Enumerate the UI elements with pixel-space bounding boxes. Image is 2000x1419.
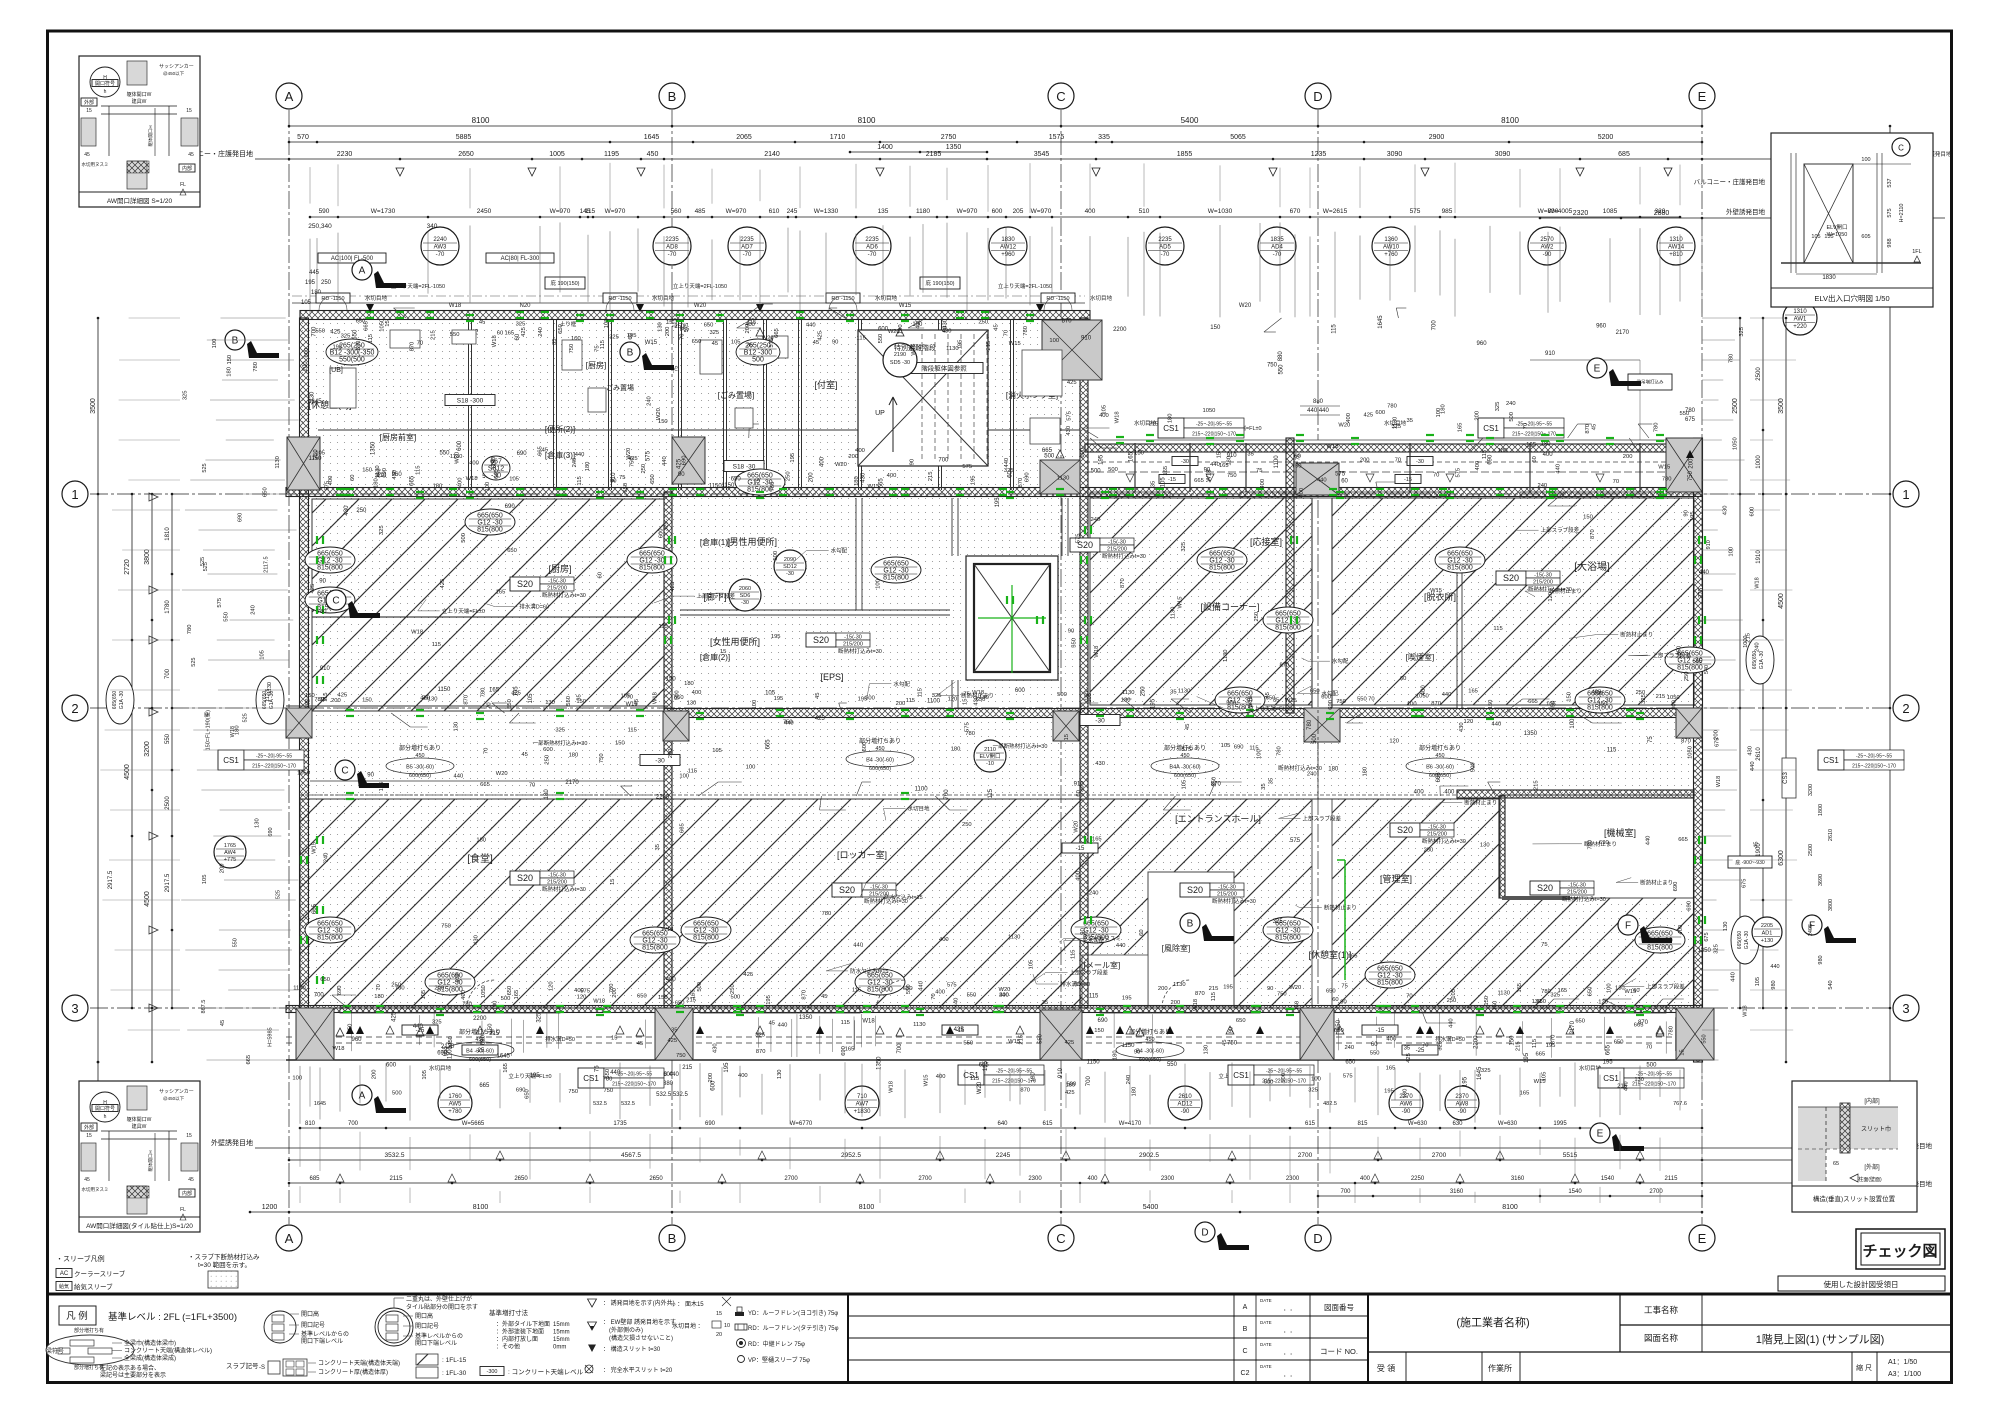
svg-text:400: 400 bbox=[469, 460, 479, 466]
svg-text:RD：中継ドレン 75φ: RD：中継ドレン 75φ bbox=[748, 1340, 805, 1348]
svg-text:C2: C2 bbox=[1241, 1370, 1250, 1377]
svg-text:250: 250 bbox=[641, 464, 647, 474]
svg-text:665: 665 bbox=[410, 475, 416, 486]
svg-text:90: 90 bbox=[832, 340, 838, 346]
svg-text:165: 165 bbox=[1163, 466, 1169, 476]
svg-text:2235: 2235 bbox=[865, 237, 879, 243]
svg-text:325: 325 bbox=[1714, 944, 1720, 954]
svg-text:400: 400 bbox=[936, 1074, 946, 1080]
svg-text:985: 985 bbox=[1442, 208, 1453, 215]
svg-text:600(650): 600(650) bbox=[409, 773, 431, 779]
svg-text:: コンクリート天端レベル: : コンクリート天端レベル bbox=[508, 1367, 584, 1376]
svg-text:815(800: 815(800 bbox=[1677, 665, 1703, 672]
svg-text:作業所: 作業所 bbox=[1488, 1363, 1512, 1373]
svg-text:105: 105 bbox=[202, 875, 208, 885]
svg-text:-15(-30: -15(-30 bbox=[1428, 825, 1446, 831]
svg-text:665: 665 bbox=[979, 1063, 990, 1069]
svg-text:650: 650 bbox=[1345, 1059, 1356, 1065]
svg-text:180: 180 bbox=[235, 725, 241, 735]
svg-text:690: 690 bbox=[705, 1121, 716, 1127]
svg-text:910: 910 bbox=[1545, 351, 1556, 357]
svg-text:105: 105 bbox=[1221, 743, 1231, 749]
svg-text:165: 165 bbox=[1348, 953, 1358, 959]
svg-text:90: 90 bbox=[1068, 629, 1074, 635]
svg-text:130: 130 bbox=[777, 1069, 783, 1079]
svg-text:425: 425 bbox=[1406, 1053, 1412, 1063]
svg-text:W15: W15 bbox=[923, 1074, 929, 1086]
svg-text:1100: 1100 bbox=[1274, 455, 1280, 469]
svg-text:W20: W20 bbox=[1239, 303, 1252, 309]
svg-text:防水欠込みt=15: 防水欠込みt=15 bbox=[850, 967, 888, 975]
svg-text:AD1: AD1 bbox=[1762, 931, 1773, 937]
svg-text:400: 400 bbox=[461, 990, 467, 1000]
svg-text:665: 665 bbox=[765, 739, 771, 750]
svg-text:B12 -300: B12 -300 bbox=[744, 350, 773, 357]
svg-text:[機械室]: [機械室] bbox=[1604, 827, 1636, 838]
svg-text:60: 60 bbox=[497, 330, 503, 336]
svg-text:90: 90 bbox=[910, 459, 916, 465]
svg-text:外部: 外部 bbox=[84, 99, 94, 106]
svg-text:W15: W15 bbox=[911, 344, 917, 356]
svg-text:h: h bbox=[104, 89, 107, 95]
svg-text:AW5: AW5 bbox=[449, 1102, 462, 1108]
svg-text:全梁成(構造体梁成): 全梁成(構造体梁成) bbox=[124, 1354, 176, 1362]
svg-text:躯体開口H: 躯体開口H bbox=[147, 125, 154, 146]
svg-text:780: 780 bbox=[1307, 719, 1313, 730]
svg-text:120: 120 bbox=[1598, 999, 1608, 1005]
svg-text:200: 200 bbox=[434, 985, 444, 991]
svg-text:685: 685 bbox=[309, 1176, 320, 1182]
svg-text:1130: 1130 bbox=[275, 456, 281, 468]
svg-text:700: 700 bbox=[897, 1043, 903, 1054]
svg-text:600: 600 bbox=[1375, 410, 1385, 416]
svg-text:-70: -70 bbox=[668, 252, 677, 258]
svg-text:615: 615 bbox=[1305, 1121, 1316, 1127]
svg-text:D: D bbox=[1313, 89, 1322, 104]
svg-text:750: 750 bbox=[568, 1089, 578, 1095]
svg-text:430: 430 bbox=[1747, 746, 1753, 756]
svg-text:115: 115 bbox=[323, 693, 329, 702]
svg-text:E: E bbox=[1597, 1129, 1604, 1140]
svg-text:105: 105 bbox=[1811, 234, 1820, 240]
svg-text:70: 70 bbox=[1433, 473, 1439, 479]
svg-text:880: 880 bbox=[663, 1081, 674, 1087]
svg-text:685: 685 bbox=[1618, 151, 1630, 158]
svg-text:60: 60 bbox=[1332, 997, 1338, 1003]
svg-text:440: 440 bbox=[853, 943, 863, 949]
svg-text:3500: 3500 bbox=[90, 398, 97, 414]
svg-text:665: 665 bbox=[364, 321, 370, 331]
svg-text:W18: W18 bbox=[661, 927, 673, 933]
svg-text:425: 425 bbox=[1592, 689, 1602, 695]
svg-text:60: 60 bbox=[598, 572, 604, 578]
svg-text:1765: 1765 bbox=[224, 843, 236, 849]
svg-text:180: 180 bbox=[1498, 448, 1508, 454]
svg-text:8100: 8100 bbox=[858, 116, 876, 125]
svg-text:A: A bbox=[359, 1091, 366, 1102]
svg-text:690: 690 bbox=[1234, 744, 1244, 750]
svg-text:250,340: 250,340 bbox=[308, 223, 332, 230]
svg-text:-25: -25 bbox=[1416, 1048, 1425, 1054]
svg-text:C: C bbox=[1242, 1348, 1247, 1355]
svg-text:45: 45 bbox=[188, 152, 194, 158]
svg-text:1130: 1130 bbox=[1122, 690, 1134, 696]
svg-text:W=1050: W=1050 bbox=[1827, 232, 1848, 238]
svg-text:75: 75 bbox=[674, 366, 680, 372]
svg-text:W18: W18 bbox=[1716, 776, 1722, 787]
svg-text:815(800: 815(800 bbox=[1275, 935, 1301, 942]
svg-text:650: 650 bbox=[507, 548, 517, 554]
svg-text:240: 240 bbox=[1344, 1045, 1354, 1051]
svg-text:[厨房]: [厨房] bbox=[586, 360, 606, 370]
svg-text:195: 195 bbox=[1223, 985, 1233, 991]
svg-text:250: 250 bbox=[1141, 686, 1147, 697]
svg-text:165: 165 bbox=[1468, 689, 1478, 695]
svg-text:45: 45 bbox=[813, 340, 819, 346]
svg-text:10: 10 bbox=[724, 1323, 730, 1329]
svg-text:180: 180 bbox=[1441, 404, 1447, 414]
svg-text:部分増打ちあり: 部分増打ちあり bbox=[399, 744, 441, 752]
svg-text:650: 650 bbox=[1575, 1018, 1585, 1024]
svg-text:3090: 3090 bbox=[1495, 151, 1511, 158]
svg-text:2650: 2650 bbox=[458, 151, 474, 158]
svg-text:8100: 8100 bbox=[472, 116, 490, 125]
svg-text:780: 780 bbox=[1654, 423, 1660, 433]
svg-text:1350: 1350 bbox=[946, 144, 962, 151]
svg-text:650: 650 bbox=[1266, 695, 1276, 701]
svg-text:400: 400 bbox=[1346, 413, 1352, 423]
svg-text:150: 150 bbox=[1488, 700, 1494, 710]
svg-text:100: 100 bbox=[492, 1001, 498, 1011]
svg-text:75: 75 bbox=[594, 1065, 600, 1072]
svg-text:780: 780 bbox=[770, 482, 776, 492]
svg-text:115: 115 bbox=[906, 698, 915, 704]
svg-text:665(650: 665(650 bbox=[1447, 551, 1473, 558]
svg-text:90: 90 bbox=[1134, 1050, 1140, 1056]
svg-text:15: 15 bbox=[666, 320, 672, 326]
svg-text:250: 250 bbox=[356, 508, 367, 514]
svg-text:W=630: W=630 bbox=[1408, 1121, 1428, 1127]
svg-text:600: 600 bbox=[1080, 448, 1086, 458]
svg-text:S20: S20 bbox=[1503, 573, 1519, 583]
svg-text:45: 45 bbox=[769, 1020, 775, 1026]
svg-text:1350: 1350 bbox=[877, 1056, 883, 1070]
svg-text:400: 400 bbox=[1543, 452, 1554, 458]
svg-text:325: 325 bbox=[1495, 402, 1501, 412]
svg-text:500: 500 bbox=[1471, 762, 1477, 772]
svg-text:60: 60 bbox=[1139, 929, 1145, 935]
svg-text:750: 750 bbox=[603, 1088, 613, 1094]
svg-text:750: 750 bbox=[1688, 470, 1694, 481]
svg-text:430: 430 bbox=[916, 319, 922, 329]
svg-text:150: 150 bbox=[488, 1024, 494, 1034]
svg-text:665: 665 bbox=[1678, 837, 1688, 843]
svg-text:550: 550 bbox=[439, 451, 450, 457]
svg-text:600: 600 bbox=[457, 440, 463, 451]
svg-text:断熱材止まり: 断熱材止まり bbox=[961, 691, 994, 699]
svg-text:h: h bbox=[104, 1114, 107, 1120]
svg-text:・ ・: ・ ・ bbox=[1282, 1330, 1293, 1336]
svg-text:215: 215 bbox=[1209, 986, 1219, 992]
svg-text:130: 130 bbox=[545, 700, 555, 706]
svg-text:1100: 1100 bbox=[915, 786, 929, 792]
svg-text:15: 15 bbox=[1064, 734, 1070, 740]
svg-text:：その他: ：その他 bbox=[496, 1343, 520, 1351]
svg-text:B: B bbox=[668, 89, 677, 104]
svg-text:AW7: AW7 bbox=[856, 1102, 869, 1108]
svg-text:W18: W18 bbox=[1742, 1005, 1748, 1016]
svg-text:815(800: 815(800 bbox=[883, 575, 909, 582]
svg-text:75: 75 bbox=[1256, 468, 1262, 474]
svg-text:750: 750 bbox=[1227, 1040, 1238, 1046]
svg-text:45: 45 bbox=[220, 1020, 226, 1026]
svg-text:図面名称: 図面名称 bbox=[1644, 1333, 1679, 1343]
svg-text:-15(-30: -15(-30 bbox=[1534, 573, 1552, 579]
svg-text:1200: 1200 bbox=[262, 1204, 278, 1211]
svg-text:5200: 5200 bbox=[1598, 134, 1614, 141]
svg-text:立上り天端=2FL-1050: 立上り天端=2FL-1050 bbox=[391, 282, 445, 290]
svg-text:8100: 8100 bbox=[859, 1204, 875, 1211]
svg-text:195: 195 bbox=[1384, 1088, 1394, 1094]
svg-text:400: 400 bbox=[1414, 790, 1425, 796]
svg-text:建具W: 建具W bbox=[132, 1123, 147, 1130]
svg-text:675: 675 bbox=[1685, 417, 1696, 423]
svg-text:スラブ記号: スラブ記号 bbox=[226, 1361, 259, 1370]
svg-text:図面番号: 図面番号 bbox=[1324, 1302, 1354, 1312]
svg-text:-90: -90 bbox=[1402, 1109, 1411, 1115]
svg-text:1910: 1910 bbox=[1756, 550, 1762, 564]
svg-text:165: 165 bbox=[1520, 1090, 1530, 1096]
svg-text:195: 195 bbox=[530, 1073, 541, 1079]
svg-text:215/200: 215/200 bbox=[547, 880, 567, 886]
svg-text:[付室]: [付室] bbox=[814, 379, 837, 390]
svg-text:575: 575 bbox=[580, 989, 590, 995]
svg-text:15: 15 bbox=[385, 320, 391, 326]
svg-text:-30: -30 bbox=[786, 571, 794, 577]
svg-text:CS1: CS1 bbox=[223, 756, 239, 765]
svg-text:880: 880 bbox=[1278, 351, 1284, 362]
svg-text:AW3: AW3 bbox=[434, 245, 447, 251]
svg-text:400: 400 bbox=[692, 690, 702, 696]
svg-text:988: 988 bbox=[1887, 238, 1893, 247]
svg-text:780: 780 bbox=[822, 911, 832, 917]
svg-text:815(800: 815(800 bbox=[642, 945, 668, 952]
svg-text:240: 240 bbox=[491, 457, 497, 467]
svg-text:650: 650 bbox=[1614, 1040, 1624, 1046]
svg-text:G12 -30: G12 -30 bbox=[693, 928, 718, 935]
svg-text:425: 425 bbox=[670, 582, 676, 592]
svg-text:665(650: 665(650 bbox=[693, 921, 719, 928]
svg-text:500: 500 bbox=[1281, 1073, 1287, 1083]
svg-text:RD：ルーフドレン(タテ引き) 75φ: RD：ルーフドレン(タテ引き) 75φ bbox=[748, 1324, 839, 1332]
svg-text:130: 130 bbox=[1121, 698, 1131, 704]
svg-text:400: 400 bbox=[820, 456, 826, 467]
svg-text:開口符号: 開口符号 bbox=[95, 1105, 115, 1112]
svg-text:815(800: 815(800 bbox=[1275, 625, 1301, 632]
svg-text:D: D bbox=[1313, 1231, 1322, 1246]
svg-text:H=2110: H=2110 bbox=[1899, 203, 1905, 222]
svg-text:440: 440 bbox=[784, 721, 794, 727]
svg-text:960: 960 bbox=[1596, 324, 1607, 330]
svg-text:195: 195 bbox=[712, 748, 722, 754]
svg-text:75: 75 bbox=[1541, 942, 1547, 948]
svg-text:440: 440 bbox=[778, 1022, 788, 1028]
svg-text:115: 115 bbox=[1089, 994, 1099, 1000]
svg-text:690: 690 bbox=[1687, 901, 1693, 911]
svg-text:60: 60 bbox=[1076, 790, 1082, 796]
svg-text:B4A -30(-60): B4A -30(-60) bbox=[1169, 765, 1200, 771]
svg-text:一部断熱材打込みt=30: 一部断熱材打込みt=30 bbox=[533, 739, 588, 747]
svg-text:195: 195 bbox=[774, 696, 784, 702]
svg-text:工事名称: 工事名称 bbox=[1644, 1305, 1679, 1315]
svg-text:躯体開口W: 躯体開口W bbox=[127, 91, 152, 98]
svg-text:1310: 1310 bbox=[1793, 309, 1807, 315]
svg-text:550: 550 bbox=[1072, 638, 1078, 648]
svg-text:750: 750 bbox=[599, 753, 605, 763]
svg-text:150: 150 bbox=[658, 995, 668, 1001]
svg-text:250: 250 bbox=[962, 822, 972, 828]
svg-text:[エントランスホール]: [エントランスホール] bbox=[1175, 814, 1261, 824]
svg-text:1235: 1235 bbox=[1311, 151, 1327, 158]
svg-text:W18: W18 bbox=[862, 1018, 875, 1024]
svg-text:CS3: CS3 bbox=[1783, 772, 1789, 784]
svg-text:665: 665 bbox=[680, 823, 686, 833]
svg-text:440: 440 bbox=[1699, 570, 1710, 576]
svg-text:S20: S20 bbox=[813, 635, 829, 645]
svg-text:1130: 1130 bbox=[1223, 649, 1229, 661]
svg-text:325: 325 bbox=[1698, 587, 1704, 598]
svg-text:20: 20 bbox=[716, 1332, 722, 1338]
svg-text:35: 35 bbox=[1150, 481, 1156, 487]
svg-text:縮 尺: 縮 尺 bbox=[1856, 1363, 1872, 1372]
svg-text:E: E bbox=[1594, 364, 1601, 375]
svg-text:： EW壁部 誘発目地を示す: ： EW壁部 誘発目地を示す bbox=[603, 1318, 676, 1326]
svg-text:100: 100 bbox=[1407, 702, 1417, 708]
svg-text:[倉庫(3)]: [倉庫(3)] bbox=[545, 450, 575, 460]
svg-text:500: 500 bbox=[773, 551, 779, 561]
svg-text:665: 665 bbox=[1536, 1052, 1546, 1058]
svg-text:575: 575 bbox=[1075, 534, 1081, 544]
svg-text:1130: 1130 bbox=[1171, 607, 1177, 619]
svg-text:G12 -30: G12 -30 bbox=[639, 558, 664, 565]
svg-text:1050: 1050 bbox=[1688, 746, 1694, 759]
svg-text:S20: S20 bbox=[1187, 885, 1203, 895]
svg-text:600: 600 bbox=[1015, 688, 1026, 694]
svg-text:780: 780 bbox=[317, 609, 327, 615]
svg-text:W=5665: W=5665 bbox=[462, 1121, 485, 1127]
svg-text:庇 190(150): 庇 190(150) bbox=[925, 279, 954, 287]
svg-text:W18: W18 bbox=[1094, 646, 1100, 658]
svg-text:[喫煙室]: [喫煙室] bbox=[1406, 652, 1434, 662]
svg-text:8100: 8100 bbox=[473, 1204, 489, 1211]
svg-text:105: 105 bbox=[422, 1070, 428, 1080]
svg-text:240: 240 bbox=[250, 605, 256, 615]
svg-text:120: 120 bbox=[948, 697, 958, 703]
svg-text:815(800: 815(800 bbox=[1447, 565, 1473, 572]
svg-text:B: B bbox=[668, 1231, 677, 1246]
svg-text:575: 575 bbox=[1290, 838, 1301, 844]
svg-text:A1：1/50: A1：1/50 bbox=[1888, 1359, 1917, 1366]
svg-text:W15: W15 bbox=[1430, 588, 1442, 594]
svg-text:200: 200 bbox=[1171, 1000, 1181, 1006]
svg-text:2570: 2570 bbox=[1540, 237, 1554, 243]
svg-text:195: 195 bbox=[1603, 1059, 1614, 1065]
svg-text:400: 400 bbox=[328, 476, 334, 486]
svg-text:200: 200 bbox=[809, 472, 815, 483]
svg-text:115: 115 bbox=[368, 334, 374, 343]
svg-text:1050: 1050 bbox=[1667, 695, 1680, 701]
svg-text:1100: 1100 bbox=[927, 698, 941, 704]
svg-text:2370: 2370 bbox=[1455, 1094, 1469, 1100]
svg-text:35: 35 bbox=[1404, 1046, 1410, 1052]
svg-text:1400: 1400 bbox=[877, 144, 893, 151]
svg-text:195: 195 bbox=[1462, 1076, 1468, 1087]
svg-text:2917.5: 2917.5 bbox=[165, 873, 171, 892]
svg-text:195: 195 bbox=[958, 340, 964, 350]
svg-text:650: 650 bbox=[637, 993, 647, 999]
svg-text:45: 45 bbox=[637, 1041, 643, 1047]
svg-text:115: 115 bbox=[600, 340, 606, 349]
svg-text:2245: 2245 bbox=[996, 1152, 1011, 1159]
svg-text:340: 340 bbox=[427, 223, 438, 230]
svg-text:500: 500 bbox=[1057, 692, 1067, 698]
svg-text:45: 45 bbox=[188, 1177, 194, 1183]
svg-text:3: 3 bbox=[71, 1001, 78, 1016]
svg-text:クーラースリーブ: クーラースリーブ bbox=[74, 1269, 126, 1278]
svg-text:+1830: +1830 bbox=[854, 1109, 872, 1115]
svg-text:45: 45 bbox=[84, 1177, 90, 1183]
svg-text:60: 60 bbox=[1633, 988, 1639, 994]
svg-text:: 1FL-15: : 1FL-15 bbox=[442, 1357, 467, 1364]
svg-text:215~-220|150~-170: 215~-220|150~-170 bbox=[612, 1082, 656, 1088]
svg-text:-15(-30: -15(-30 bbox=[870, 885, 888, 891]
svg-text:215/200: 215/200 bbox=[1533, 580, 1553, 586]
svg-text:600: 600 bbox=[543, 747, 553, 753]
svg-text:650: 650 bbox=[507, 986, 513, 996]
svg-text:485: 485 bbox=[695, 208, 706, 215]
svg-text:水切目地 ：: 水切目地 ： bbox=[672, 1322, 704, 1330]
svg-text:1645: 1645 bbox=[644, 134, 660, 141]
svg-text:200: 200 bbox=[1714, 730, 1720, 740]
svg-text:200: 200 bbox=[1689, 458, 1695, 469]
svg-text:2230: 2230 bbox=[337, 151, 353, 158]
svg-text:870: 870 bbox=[756, 1049, 766, 1055]
svg-text:440 440: 440 440 bbox=[1307, 408, 1329, 414]
svg-text:1085: 1085 bbox=[1603, 208, 1618, 215]
svg-text:215/200: 215/200 bbox=[843, 642, 863, 648]
svg-text:2205: 2205 bbox=[1761, 923, 1773, 929]
svg-text:2700: 2700 bbox=[1432, 1152, 1447, 1159]
svg-text:425: 425 bbox=[521, 327, 527, 337]
svg-text:[設備コーナー]: [設備コーナー] bbox=[1200, 601, 1259, 612]
svg-text:全梁巾(構造体梁巾): 全梁巾(構造体梁巾) bbox=[124, 1339, 176, 1347]
svg-text:1FL: 1FL bbox=[1912, 249, 1921, 255]
svg-text:650: 650 bbox=[320, 977, 330, 983]
svg-text:750: 750 bbox=[569, 344, 575, 354]
svg-text:2140: 2140 bbox=[764, 151, 780, 158]
svg-text:B: B bbox=[627, 348, 634, 359]
svg-text:2200: 2200 bbox=[1113, 327, 1127, 333]
svg-text:75: 75 bbox=[1648, 736, 1654, 743]
svg-text:180: 180 bbox=[374, 478, 380, 488]
svg-text:ELV開口: ELV開口 bbox=[1827, 224, 1848, 231]
svg-text:600(650): 600(650) bbox=[1429, 773, 1451, 779]
svg-text:外部: 外部 bbox=[84, 1124, 94, 1131]
svg-text:180: 180 bbox=[544, 789, 550, 800]
svg-text:575: 575 bbox=[964, 722, 970, 732]
svg-text:部分増打ちあり: 部分増打ちあり bbox=[1419, 744, 1461, 752]
svg-text:W=970: W=970 bbox=[726, 208, 747, 215]
